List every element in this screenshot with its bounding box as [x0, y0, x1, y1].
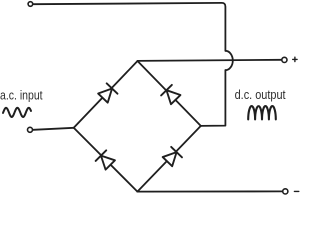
diode D2 (right vertex to top vertex) — [161, 85, 181, 105]
symbol: d.c. rectified wave (four humps) — [248, 106, 276, 119]
label: + polarity mark — [293, 57, 297, 61]
diode D3 (bottom vertex to left vertex) — [96, 150, 116, 170]
symbol: a.c. sine wave — [3, 108, 31, 117]
wire: vertical a.c. wire down to bridge right vertex — [201, 70, 226, 126]
wire: d.c. + output from bridge top vertex to + terminal — [138, 60, 282, 61]
wire hop: vertical a.c. wire hops over d.c. + wire — [225, 51, 232, 70]
wire: top a.c. lead from upper input terminal to vertical drop — [33, 3, 225, 51]
diode D4 (bottom vertex to right vertex) — [162, 147, 182, 167]
wire: bridge edge top vertex to right vertex — [138, 61, 201, 126]
wire: d.c. - output from bridge bottom vertex to - terminal — [137, 190, 282, 192]
svg-text:d.c. output: d.c. output — [235, 87, 286, 102]
wire: bridge edge left vertex to top vertex — [74, 61, 138, 128]
wire: bridge edge left vertex to bottom vertex — [74, 128, 138, 192]
label: - polarity mark — [294, 190, 298, 192]
terminal: upper a.c. input — [28, 2, 33, 7]
wire: bridge edge bottom vertex to right vertex — [137, 126, 200, 192]
wire: lower a.c. lead from input terminal to bridge left vertex — [33, 128, 73, 130]
terminal: d.c. output + — [282, 57, 287, 62]
terminal: d.c. output - — [283, 189, 288, 194]
svg-text:a.c. input: a.c. input — [0, 87, 43, 102]
diode D1 (left vertex to top vertex) — [98, 83, 118, 103]
terminal: lower a.c. input — [28, 127, 33, 132]
